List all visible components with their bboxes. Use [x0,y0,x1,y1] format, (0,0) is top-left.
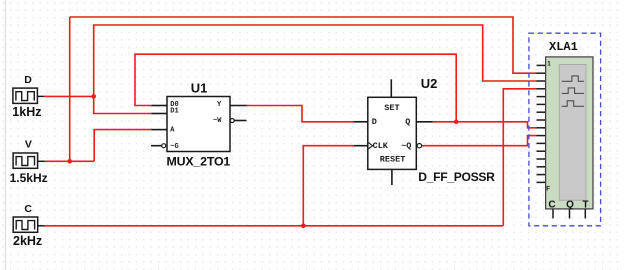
svg-text:~Q: ~Q [401,141,411,151]
multiplexer U1 MUX_2TO1 [151,97,247,152]
svg-text:~G: ~G [170,143,178,151]
U2 pin D [354,121,368,123]
wire net D: source D to junction [44,95,93,97]
U1 pin ~W with bubble [230,119,234,123]
svg-text:V: V [25,139,32,151]
svg-text:U2: U2 [421,76,438,91]
svg-text:D: D [24,74,32,86]
XLA1 input pins (16) [537,65,547,182]
clock source D (1kHz) [13,88,44,103]
U2 pin RESET (bottom, unconnected) [391,169,393,185]
svg-text:1.5kHz: 1.5kHz [10,171,48,185]
XLA1 waveform trace 2 [562,88,584,94]
wire net V: branch to U1 pin A [94,130,151,162]
wire net Q: feedback riser [135,54,456,122]
wire net V: source V to vertical riser [45,160,95,162]
wire net C: source C bottom rail [45,225,504,227]
wire net D: branch down to U1 pin D1 [94,96,152,113]
U2 pin CLK with edge triangle [354,145,368,147]
svg-text:RESET: RESET [380,155,406,165]
svg-text:~W: ~W [213,117,222,125]
junction net V [67,159,72,164]
wire net V: riser up to top rail [69,17,71,161]
svg-text:CLK: CLK [373,141,389,151]
junction net C [301,224,306,229]
svg-text:2kHz: 2kHz [13,234,42,248]
svg-text:D: D [372,117,377,127]
wire net ~Q: U2 ~Q output to XLA1 with jog [422,136,537,146]
XLA1 dashed boundary [529,33,601,226]
svg-text:SET: SET [384,103,399,113]
U2 pin SET (top, unconnected) [390,79,392,97]
wire net C: riser to XLA1 [503,89,536,226]
svg-text:C: C [24,203,32,215]
svg-text:F: F [546,187,550,193]
wire net D: riser to top rail and XLA1 [94,25,537,96]
svg-text:Q: Q [405,117,410,127]
XLA1 body [546,57,593,209]
clock source C (2kHz) [13,217,44,232]
U1 pin D1 [151,113,167,115]
U1 pin Y [230,105,247,107]
wire net Y: U1 Y output to U2 D input [247,106,355,122]
U2 pin Q [416,121,432,123]
svg-text:D1: D1 [170,108,178,116]
wire net Q: U2 Q output to XLA1 with jog [433,122,537,128]
junction net D [91,94,96,99]
svg-text:Q: Q [566,199,574,210]
svg-text:D_FF_POSSR: D_FF_POSSR [418,170,495,184]
svg-text:C: C [548,199,555,210]
wire net C: branch up to U2 CLK [303,146,354,226]
U1 pin ~G with bubble [151,145,162,147]
svg-text:XLA1: XLA1 [549,40,578,54]
U1 pin D0 [151,105,167,107]
svg-text:U1: U1 [191,81,208,96]
clock source V (1.5kHz) [13,153,44,168]
XLA1 waveform trace 3 [562,101,584,107]
wire net V: top rail to XLA1 [70,17,537,73]
XLA1 waveform trace 1 [562,76,584,81]
U2 pin ~Q with bubble [417,144,421,148]
junction net Q [454,120,459,125]
XLA1 bottom pins C Q T [553,209,585,219]
D flip-flop U2 D_FF_POSSR [354,79,433,185]
svg-text:1: 1 [547,60,551,67]
XLA1 screen [559,65,586,201]
svg-text:MUX_2TO1: MUX_2TO1 [167,155,231,169]
svg-text:T: T [582,199,588,210]
logic analyzer XLA1 [529,33,601,226]
U1 pin A [151,129,167,131]
svg-text:1kHz: 1kHz [12,105,41,119]
